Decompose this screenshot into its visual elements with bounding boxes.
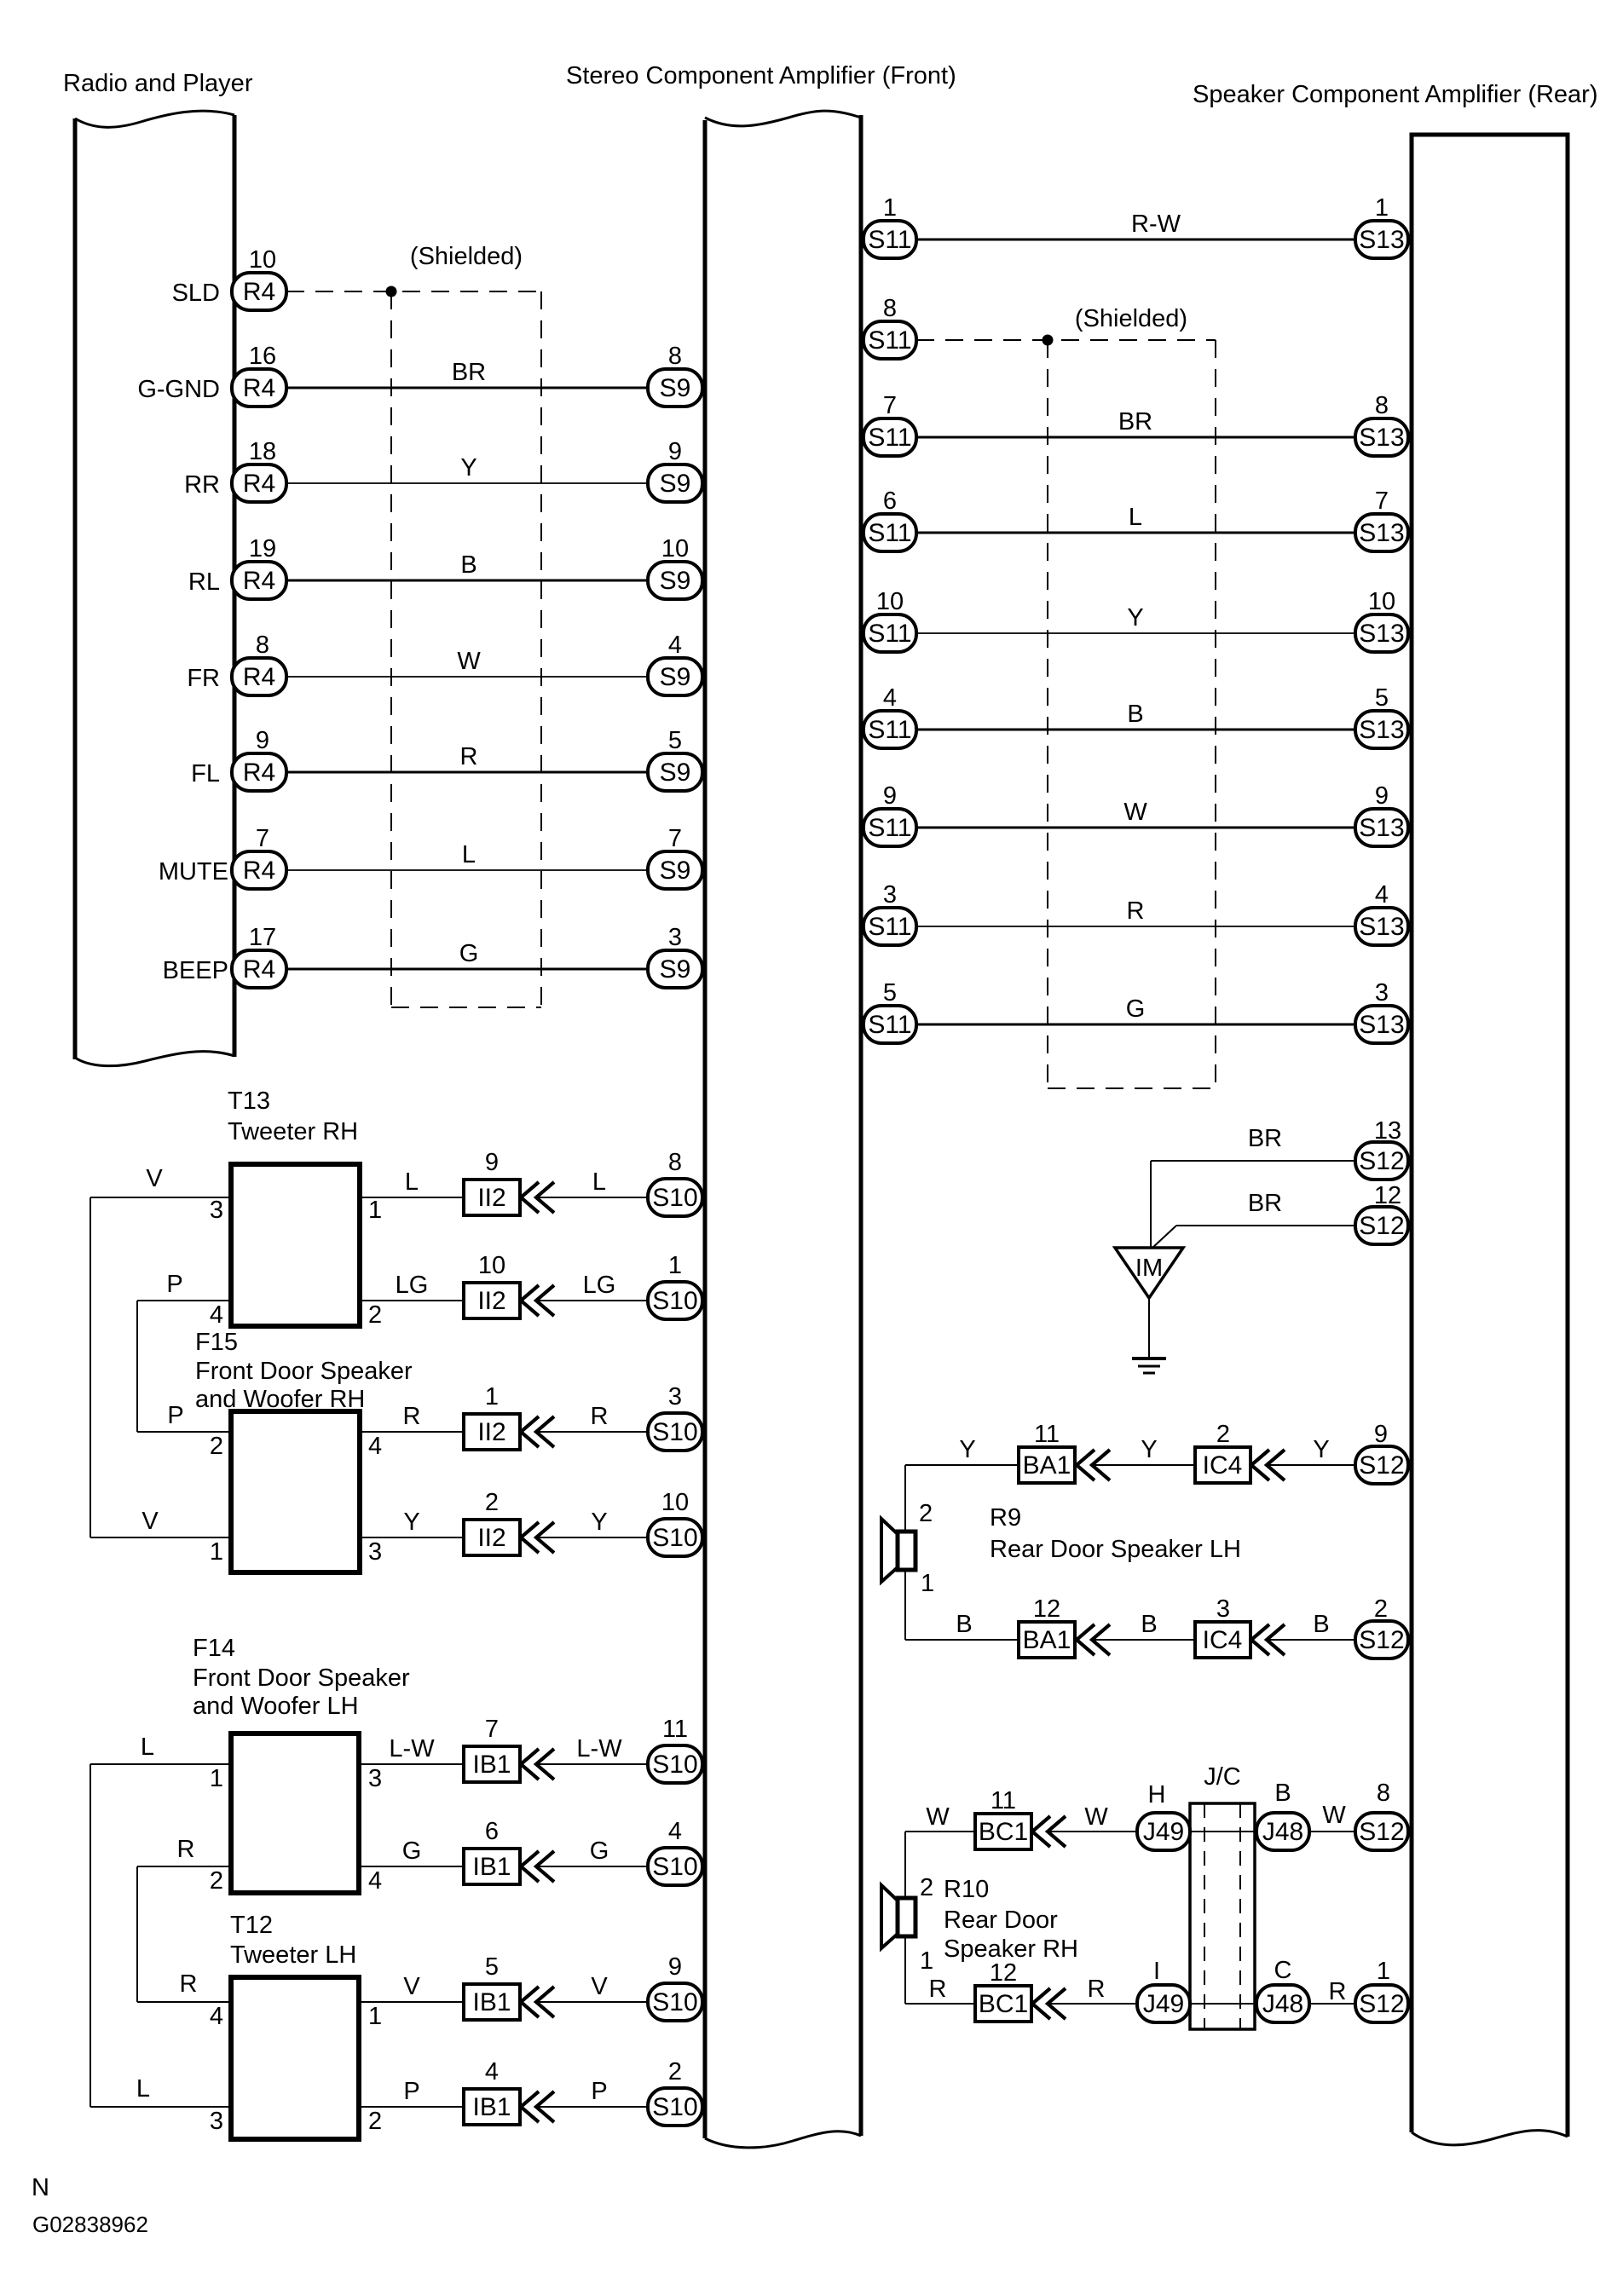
wire V box to IB1 bbox=[359, 2001, 464, 2003]
svg-text:1: 1 bbox=[883, 194, 897, 222]
svg-text:6: 6 bbox=[883, 487, 897, 515]
inline connector arrows II2 (Y row) bbox=[521, 1522, 539, 1553]
svg-text:Stereo Component Amplifier (Fr: Stereo Component Amplifier (Front) bbox=[566, 62, 956, 89]
wire P IB1 to S10-2 bbox=[536, 2106, 648, 2108]
component box F14 (Front Door Speaker and Woofer LH) bbox=[231, 1734, 359, 1893]
wire B BA1 to IC4 bbox=[1092, 1639, 1195, 1641]
svg-text:S10: S10 bbox=[652, 1751, 697, 1779]
svg-text:IM: IM bbox=[1135, 1255, 1163, 1282]
wire V T13-3 to F15-1 bbox=[90, 1197, 231, 1198]
shield box (left, dashed) bbox=[390, 291, 392, 1007]
svg-text:T13: T13 bbox=[228, 1087, 270, 1115]
svg-text:4: 4 bbox=[368, 1867, 382, 1895]
connector BA1 (Y row) bbox=[1019, 1447, 1075, 1483]
svg-text:G: G bbox=[1126, 995, 1146, 1023]
svg-text:3: 3 bbox=[883, 881, 897, 909]
inline connector arrows II2 (LG row) bbox=[521, 1285, 539, 1316]
svg-text:2: 2 bbox=[1374, 1595, 1388, 1623]
svg-text:R: R bbox=[177, 1836, 195, 1863]
svg-text:6: 6 bbox=[485, 1818, 499, 1845]
connector S11 (pin 8) bbox=[863, 321, 916, 359]
svg-text:I: I bbox=[1153, 1958, 1160, 1985]
svg-text:S11: S11 bbox=[868, 1011, 911, 1039]
svg-text:J49: J49 bbox=[1143, 1990, 1184, 2018]
svg-text:2: 2 bbox=[919, 1500, 933, 1527]
svg-text:W: W bbox=[1084, 1803, 1108, 1831]
svg-text:Tweeter RH: Tweeter RH bbox=[228, 1118, 358, 1145]
svg-text:19: 19 bbox=[249, 535, 276, 562]
svg-text:T12: T12 bbox=[230, 1912, 273, 1939]
connector R4 (FR) bbox=[232, 658, 286, 695]
svg-text:V: V bbox=[142, 1508, 159, 1535]
wire LG box to II2 bbox=[360, 1300, 464, 1301]
connector S11 (pin 7) bbox=[863, 418, 916, 456]
connector S12 (pin 13) bbox=[1355, 1142, 1408, 1180]
svg-text:S12: S12 bbox=[1359, 1626, 1404, 1654]
wire G R4-17 to S9-3 bbox=[286, 968, 648, 971]
speaker R10 symbol bbox=[881, 1885, 898, 1948]
svg-text:Y: Y bbox=[403, 1509, 419, 1536]
connector S13 (W row) bbox=[1355, 809, 1408, 846]
svg-text:J49: J49 bbox=[1143, 1818, 1184, 1846]
connector S11 (pin 1) bbox=[863, 221, 916, 258]
svg-text:3: 3 bbox=[1216, 1595, 1230, 1623]
svg-text:J48: J48 bbox=[1262, 1990, 1303, 2018]
connector S10 (pin 4) bbox=[648, 1848, 702, 1885]
wire R J48 to S12-1 bbox=[1309, 2003, 1356, 2005]
svg-text:1: 1 bbox=[1377, 1958, 1390, 1985]
svg-text:3: 3 bbox=[368, 1765, 382, 1792]
svg-text:4: 4 bbox=[368, 1433, 382, 1460]
svg-text:5: 5 bbox=[668, 727, 682, 754]
inline connector arrows BC1 (W row) bbox=[1032, 1816, 1050, 1847]
svg-text:S10: S10 bbox=[652, 1184, 697, 1212]
svg-text:B: B bbox=[956, 1611, 972, 1638]
wire W BC1 to J49-H bbox=[1048, 1831, 1137, 1832]
wire G S11-5 to S13-3 bbox=[916, 1024, 1356, 1026]
svg-text:Rear Door Speaker LH: Rear Door Speaker LH bbox=[990, 1536, 1241, 1563]
svg-text:9: 9 bbox=[668, 438, 682, 465]
svg-text:BEEP: BEEP bbox=[163, 957, 228, 984]
svg-text:4: 4 bbox=[210, 2003, 223, 2030]
svg-text:LG: LG bbox=[583, 1272, 616, 1299]
wire Y box to II2 bbox=[360, 1537, 464, 1538]
connector S12 (pin 2) bbox=[1355, 1621, 1408, 1659]
svg-text:7: 7 bbox=[1375, 487, 1389, 515]
inline connector arrows IB1 (P row) bbox=[521, 2091, 539, 2122]
connector R4 (RR) bbox=[232, 464, 286, 502]
svg-text:G: G bbox=[459, 940, 479, 967]
wire IM to ground bbox=[1148, 1298, 1150, 1359]
svg-text:12: 12 bbox=[990, 1959, 1017, 1987]
svg-text:9: 9 bbox=[1374, 1421, 1388, 1448]
connector S9 (W row) bbox=[648, 658, 702, 695]
svg-text:17: 17 bbox=[249, 924, 276, 951]
svg-text:1: 1 bbox=[921, 1570, 934, 1597]
component band: Speaker Component Amplifier (Rear) bbox=[1412, 135, 1568, 2137]
svg-text:RR: RR bbox=[184, 471, 220, 499]
wire L II2 to S10-8 bbox=[536, 1197, 648, 1198]
svg-text:3: 3 bbox=[210, 2108, 223, 2135]
svg-text:R4: R4 bbox=[243, 857, 275, 885]
svg-text:7: 7 bbox=[668, 825, 682, 852]
svg-text:V: V bbox=[591, 1973, 608, 2000]
svg-text:Radio and Player: Radio and Player bbox=[63, 70, 253, 97]
wire P box to IB1 bbox=[359, 2106, 464, 2108]
wire L-W box to IB1 bbox=[359, 1763, 464, 1765]
svg-text:L-W: L-W bbox=[576, 1735, 622, 1762]
svg-text:S9: S9 bbox=[660, 470, 691, 498]
svg-text:G02838962: G02838962 bbox=[32, 2212, 148, 2237]
svg-text:R4: R4 bbox=[243, 470, 275, 498]
svg-text:4: 4 bbox=[668, 1818, 682, 1845]
svg-text:FR: FR bbox=[187, 665, 220, 692]
svg-text:P: P bbox=[591, 2078, 607, 2105]
svg-text:4: 4 bbox=[883, 684, 897, 712]
svg-text:II2: II2 bbox=[477, 1184, 505, 1212]
wire B S11-4 to S13-5 bbox=[916, 729, 1356, 731]
svg-text:8: 8 bbox=[1377, 1780, 1390, 1807]
svg-text:S10: S10 bbox=[652, 1418, 697, 1446]
wire L-W IB1 to S10-11 bbox=[536, 1763, 648, 1765]
svg-text:S11: S11 bbox=[868, 620, 911, 648]
svg-text:S10: S10 bbox=[652, 1853, 697, 1881]
svg-text:2: 2 bbox=[210, 1867, 223, 1895]
svg-text:S9: S9 bbox=[660, 759, 691, 787]
svg-text:9: 9 bbox=[883, 782, 897, 810]
svg-text:B: B bbox=[460, 551, 477, 579]
svg-text:R4: R4 bbox=[243, 955, 275, 984]
svg-text:2: 2 bbox=[485, 1489, 499, 1516]
svg-text:S9: S9 bbox=[660, 955, 691, 984]
svg-text:1: 1 bbox=[668, 1252, 682, 1279]
svg-text:S11: S11 bbox=[868, 226, 911, 254]
wire Y II2 to S10-10 bbox=[536, 1537, 648, 1538]
svg-text:Speaker Component Amplifier (R: Speaker Component Amplifier (Rear) bbox=[1193, 81, 1597, 108]
connector J48 (W row) bbox=[1256, 1813, 1309, 1850]
inline connector arrows IC4 (B row) bbox=[1251, 1624, 1269, 1655]
svg-text:9: 9 bbox=[668, 1953, 682, 1981]
connector S11 (pin 6) bbox=[863, 514, 916, 551]
svg-text:S13: S13 bbox=[1359, 226, 1404, 254]
svg-text:MUTE: MUTE bbox=[159, 858, 228, 886]
svg-text:L: L bbox=[136, 2075, 150, 2103]
svg-text:B: B bbox=[1127, 701, 1143, 728]
svg-text:II2: II2 bbox=[477, 1524, 505, 1552]
inline connector arrows IB1 (V row) bbox=[521, 1987, 539, 2017]
connector BC1 (W row) bbox=[975, 1814, 1031, 1849]
svg-text:(Shielded): (Shielded) bbox=[410, 243, 523, 270]
connector S11 (pin 3) bbox=[863, 908, 916, 945]
connector S13 (L row) bbox=[1355, 514, 1408, 551]
connector S10 (pin 2) bbox=[648, 2088, 702, 2126]
wire Y BA1 to IC4 bbox=[1092, 1464, 1195, 1466]
connector S13 (BR row) bbox=[1355, 418, 1408, 456]
wire L S11-6 to S13-7 bbox=[916, 532, 1356, 534]
wire shield drain SLD (dashed) bbox=[286, 291, 541, 292]
svg-text:S13: S13 bbox=[1359, 716, 1404, 744]
svg-text:7: 7 bbox=[883, 392, 897, 419]
connector R4 (SLD) bbox=[232, 273, 286, 310]
inline connector arrows II2 (R row) bbox=[521, 1416, 539, 1447]
svg-text:F14: F14 bbox=[193, 1635, 235, 1662]
svg-text:1: 1 bbox=[920, 1947, 933, 1975]
svg-text:B: B bbox=[1141, 1611, 1157, 1638]
svg-text:S13: S13 bbox=[1359, 519, 1404, 547]
connector S9 (G row) bbox=[648, 950, 702, 988]
connector R4 (RL) bbox=[232, 562, 286, 599]
connector IC4 (Y row) bbox=[1195, 1447, 1250, 1483]
svg-text:IB1: IB1 bbox=[472, 2093, 511, 2121]
wire R R10-1 to BC1-12 bbox=[904, 1936, 906, 2004]
svg-text:S13: S13 bbox=[1359, 620, 1404, 648]
svg-text:RL: RL bbox=[188, 568, 220, 596]
inline connector arrows BA1 (Y row) bbox=[1077, 1450, 1095, 1480]
inline connector arrows BA1 (B row) bbox=[1077, 1624, 1095, 1655]
svg-text:9: 9 bbox=[485, 1149, 499, 1176]
connector S13 (Y row) bbox=[1355, 614, 1408, 652]
svg-text:S9: S9 bbox=[660, 374, 691, 402]
svg-text:BC1: BC1 bbox=[979, 1818, 1028, 1846]
svg-text:G: G bbox=[590, 1837, 609, 1865]
svg-text:R4: R4 bbox=[243, 567, 275, 595]
connector R4 (MUTE) bbox=[232, 851, 286, 889]
wire G box to IB1 bbox=[359, 1866, 464, 1867]
svg-text:R9: R9 bbox=[990, 1504, 1021, 1532]
wire W R10-2 to BC1-11 bbox=[905, 1831, 975, 1832]
wire Y R4-18 to S9-9 bbox=[286, 482, 648, 484]
svg-text:BC1: BC1 bbox=[979, 1990, 1028, 2018]
connector J48 (R row) bbox=[1256, 1985, 1309, 2022]
svg-text:2: 2 bbox=[368, 1301, 382, 1329]
svg-text:LG: LG bbox=[396, 1272, 429, 1299]
connector S9 (BR row) bbox=[648, 369, 702, 407]
wire Y R9-2 to BA1-11 bbox=[905, 1464, 1019, 1466]
svg-text:8: 8 bbox=[1375, 392, 1389, 419]
svg-text:G-GND: G-GND bbox=[137, 376, 220, 403]
svg-text:II2: II2 bbox=[477, 1418, 505, 1446]
wire R F14-2 to T12-4 bbox=[137, 1866, 231, 1867]
svg-text:S9: S9 bbox=[660, 567, 691, 595]
svg-text:BA1: BA1 bbox=[1023, 1451, 1071, 1480]
wire R II2 to S10-3 bbox=[536, 1431, 648, 1433]
connector S12 (pin 8) bbox=[1355, 1813, 1408, 1850]
inline connector arrows IC4 (Y row) bbox=[1251, 1450, 1269, 1480]
connector S12 (pin 1) bbox=[1355, 1985, 1408, 2022]
wire LG II2 to S10-1 bbox=[536, 1300, 648, 1301]
svg-text:S13: S13 bbox=[1359, 913, 1404, 941]
svg-text:L: L bbox=[1129, 504, 1142, 531]
svg-text:S11: S11 bbox=[868, 716, 911, 744]
junction dot on shield (right) bbox=[1043, 335, 1054, 346]
inline connector arrows IB1 (G row) bbox=[521, 1851, 539, 1882]
svg-text:8: 8 bbox=[668, 343, 682, 370]
connector S12 (pin 12) bbox=[1355, 1207, 1408, 1244]
svg-text:8: 8 bbox=[256, 632, 269, 659]
wire G IB1 to S10-4 bbox=[536, 1866, 648, 1867]
connector S11 (pin 5) bbox=[863, 1006, 916, 1043]
wire W through J/C (H to B) bbox=[1190, 1831, 1256, 1832]
svg-text:Y: Y bbox=[1127, 604, 1143, 632]
wire R S11-3 to S13-4 bbox=[916, 926, 1356, 927]
svg-text:W: W bbox=[1322, 1802, 1346, 1829]
svg-text:Tweeter LH: Tweeter LH bbox=[230, 1941, 356, 1969]
junction dot on shield (left) bbox=[386, 286, 397, 297]
svg-text:S13: S13 bbox=[1359, 1011, 1404, 1039]
svg-text:R: R bbox=[591, 1403, 609, 1430]
svg-text:IB1: IB1 bbox=[472, 1751, 511, 1779]
svg-text:B: B bbox=[1313, 1611, 1329, 1638]
component box F15 (Front Door Speaker and Woofer RH) bbox=[231, 1411, 360, 1572]
svg-text:R4: R4 bbox=[243, 663, 275, 691]
svg-text:1: 1 bbox=[1375, 194, 1389, 222]
wire L F14-1 to T12-3 bbox=[90, 1763, 231, 1765]
svg-text:10: 10 bbox=[661, 1489, 689, 1516]
svg-text:R: R bbox=[1127, 897, 1145, 925]
svg-text:16: 16 bbox=[249, 343, 276, 370]
connector S10 (pin 8) bbox=[648, 1179, 702, 1216]
svg-text:P: P bbox=[166, 1271, 182, 1298]
svg-text:G: G bbox=[402, 1837, 422, 1865]
svg-text:4: 4 bbox=[668, 632, 682, 659]
svg-text:S11: S11 bbox=[868, 326, 911, 355]
svg-text:S12: S12 bbox=[1359, 1451, 1404, 1480]
svg-text:S12: S12 bbox=[1359, 1990, 1404, 2018]
svg-text:S13: S13 bbox=[1359, 424, 1404, 452]
connector S13 (R row) bbox=[1355, 908, 1408, 945]
connector II2 (Y row) bbox=[464, 1520, 520, 1555]
connector J49 (R row) bbox=[1137, 1985, 1190, 2022]
svg-text:BR: BR bbox=[1248, 1125, 1282, 1152]
svg-text:11: 11 bbox=[1034, 1421, 1060, 1448]
svg-text:R4: R4 bbox=[243, 278, 275, 306]
connector R4 (G-GND) bbox=[232, 369, 286, 407]
svg-text:R4: R4 bbox=[243, 759, 275, 787]
connector BC1 (R row) bbox=[975, 1986, 1031, 2022]
ground symbol bbox=[1132, 1357, 1166, 1360]
svg-text:2: 2 bbox=[210, 1433, 223, 1460]
connector S10 (pin 10) bbox=[648, 1519, 702, 1556]
svg-text:S13: S13 bbox=[1359, 814, 1404, 842]
wire B R4-19 to S9-10 bbox=[286, 580, 648, 582]
svg-text:J48: J48 bbox=[1262, 1818, 1303, 1846]
svg-text:H: H bbox=[1148, 1781, 1166, 1809]
svg-text:10: 10 bbox=[249, 246, 276, 274]
svg-text:R: R bbox=[403, 1403, 421, 1430]
svg-text:R10: R10 bbox=[944, 1876, 989, 1903]
component box T13 (Tweeter RH) bbox=[231, 1164, 360, 1326]
svg-text:1: 1 bbox=[210, 1538, 223, 1566]
svg-text:S11: S11 bbox=[868, 913, 911, 941]
svg-text:S12: S12 bbox=[1359, 1147, 1404, 1175]
connector II2 (L row) bbox=[464, 1180, 520, 1215]
svg-text:10: 10 bbox=[1368, 588, 1395, 615]
svg-text:4: 4 bbox=[485, 2058, 499, 2085]
connector IB1 (G row) bbox=[464, 1849, 520, 1884]
svg-text:2: 2 bbox=[1216, 1421, 1230, 1448]
svg-text:12: 12 bbox=[1033, 1595, 1060, 1623]
svg-text:3: 3 bbox=[1375, 979, 1389, 1007]
svg-text:1: 1 bbox=[368, 1197, 382, 1224]
svg-text:IB1: IB1 bbox=[472, 1853, 511, 1881]
svg-text:BR: BR bbox=[452, 359, 486, 386]
wire BR R4-16 to S9-8 bbox=[286, 387, 648, 389]
svg-text:B: B bbox=[1274, 1780, 1291, 1807]
svg-text:3: 3 bbox=[668, 1383, 682, 1410]
component band: Radio and Player bbox=[73, 118, 78, 1059]
wire L box to II2 bbox=[360, 1197, 464, 1198]
svg-text:9: 9 bbox=[256, 727, 269, 754]
svg-text:3: 3 bbox=[368, 1538, 382, 1566]
svg-text:11: 11 bbox=[991, 1787, 1016, 1814]
speaker R9 symbol bbox=[881, 1519, 898, 1582]
svg-text:Rear Door: Rear Door bbox=[944, 1907, 1058, 1934]
wire P T13-4 to F15-2 bbox=[137, 1300, 231, 1301]
svg-text:2: 2 bbox=[668, 2058, 682, 2085]
svg-text:FL: FL bbox=[191, 760, 220, 787]
svg-text:S11: S11 bbox=[868, 814, 911, 842]
svg-text:4: 4 bbox=[1375, 881, 1389, 909]
svg-text:S12: S12 bbox=[1359, 1818, 1404, 1846]
connector S11 (pin 4) bbox=[863, 711, 916, 748]
connector BA1 (B row) bbox=[1019, 1622, 1075, 1658]
shield box (right, dashed) bbox=[1047, 340, 1048, 1088]
svg-text:1: 1 bbox=[485, 1383, 499, 1410]
svg-text:Y: Y bbox=[1141, 1436, 1157, 1463]
connector S9 (B row) bbox=[648, 562, 702, 599]
component band: Stereo Component Amplifier (Front) bbox=[703, 120, 708, 2138]
connector S10 (pin 9) bbox=[648, 1983, 702, 2021]
svg-text:R: R bbox=[180, 1970, 198, 1998]
svg-text:7: 7 bbox=[256, 825, 269, 852]
svg-text:8: 8 bbox=[668, 1149, 682, 1176]
connector S13 (R-W row) bbox=[1355, 221, 1408, 258]
svg-text:R: R bbox=[460, 743, 478, 770]
connector S13 (B row) bbox=[1355, 711, 1408, 748]
svg-text:(Shielded): (Shielded) bbox=[1075, 305, 1187, 332]
connector II2 (LG row) bbox=[464, 1283, 520, 1318]
svg-text:R: R bbox=[1329, 1978, 1347, 2005]
wire V IB1 to S10-9 bbox=[536, 2001, 648, 2003]
svg-text:C: C bbox=[1274, 1957, 1292, 1984]
connector S12 (pin 9) bbox=[1355, 1446, 1408, 1484]
connector S9 (L row) bbox=[648, 851, 702, 889]
wire B IC4 to S12-2 bbox=[1267, 1639, 1356, 1641]
svg-text:IC4: IC4 bbox=[1203, 1626, 1243, 1654]
svg-text:S9: S9 bbox=[660, 857, 691, 885]
svg-text:S10: S10 bbox=[652, 1524, 697, 1552]
inline connector arrows BC1 (R row) bbox=[1032, 1988, 1050, 2019]
svg-text:R: R bbox=[1088, 1976, 1106, 2003]
wire shield drain S11-8 (dashed) bbox=[916, 339, 1216, 341]
wire R box to II2 bbox=[360, 1431, 464, 1433]
wire R BC1 to J49-I bbox=[1048, 2003, 1137, 2005]
ground point IM (triangle) bbox=[1115, 1248, 1183, 1298]
svg-text:BA1: BA1 bbox=[1023, 1626, 1071, 1654]
svg-text:W: W bbox=[457, 648, 481, 675]
svg-text:10: 10 bbox=[661, 535, 689, 562]
connector IB1 (V row) bbox=[464, 1984, 520, 2020]
wire R R4-9 to S9-5 bbox=[286, 771, 648, 774]
svg-text:5: 5 bbox=[1375, 684, 1389, 712]
svg-text:L: L bbox=[141, 1734, 154, 1761]
connector IC4 (B row) bbox=[1195, 1622, 1250, 1658]
svg-text:Y: Y bbox=[460, 454, 477, 482]
wire BR S11-7 to S13-8 bbox=[916, 436, 1356, 439]
svg-text:4: 4 bbox=[210, 1301, 223, 1329]
wire W S11-9 to S13-9 bbox=[916, 827, 1356, 829]
svg-text:BR: BR bbox=[1248, 1190, 1282, 1217]
